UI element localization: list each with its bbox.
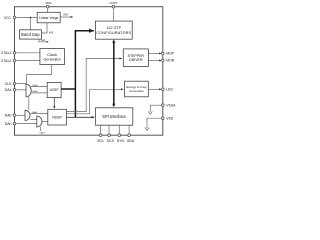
svg-text:Linear Vregs: Linear Vregs xyxy=(39,16,58,20)
spi SPI Interface xyxy=(96,108,133,125)
pin XTAL2 xyxy=(1,59,40,63)
pin XTAL1 xyxy=(1,51,40,55)
pin VDD xyxy=(45,1,52,12)
wire VCC branch to Band Gap xyxy=(30,18,32,30)
bus OTP-SPI vertical xyxy=(112,39,115,107)
wire VSS to ground xyxy=(147,118,162,128)
svg-text:LED: LED xyxy=(166,88,173,92)
pin VOTP xyxy=(109,1,117,21)
wire VDA output arrow xyxy=(60,14,73,17)
bus elbow to OTP xyxy=(75,30,94,32)
svg-text:MON: MON xyxy=(166,59,174,63)
wire DAn to second mux xyxy=(16,123,37,125)
pin VCC xyxy=(4,16,37,30)
mux upper input stage xyxy=(26,84,31,97)
mux lower input stage xyxy=(25,110,30,120)
wire NDSP to stepper driver xyxy=(67,59,122,112)
pin DAx xyxy=(5,88,26,92)
svg-text:XTAL1: XTAL1 xyxy=(1,51,11,55)
bus xDSP output xyxy=(61,88,75,90)
svg-text:DAx: DAx xyxy=(5,88,12,92)
wire NDSP and bus to SPI xyxy=(67,116,95,118)
wire mux chain vertical xyxy=(28,97,30,111)
svg-text:DAx2: DAx2 xyxy=(33,90,39,93)
svg-text:DAn: DAn xyxy=(5,122,12,126)
wire XTAL1 to Clock Generator xyxy=(16,52,40,54)
svg-text:SCS: SCS xyxy=(107,139,115,143)
driver STEPPER DRIVER xyxy=(123,49,148,67)
regulator U-LinearVregs xyxy=(37,12,60,22)
pin MON xyxy=(148,59,174,63)
wire clock net xyxy=(27,65,52,84)
wire lower mux to second mux xyxy=(31,118,37,120)
svg-text:bnd: bnd xyxy=(41,39,46,42)
svg-text:xDSP: xDSP xyxy=(50,88,59,92)
chip outer border xyxy=(15,7,163,136)
svg-text:XTAL2: XTAL2 xyxy=(1,59,11,63)
svg-text:VDA: VDA xyxy=(63,14,68,17)
oscillator Clock Generator xyxy=(40,49,65,65)
wire XTAL2 to Clock Generator xyxy=(16,60,40,62)
svg-text:NDSP: NDSP xyxy=(52,115,62,119)
svg-text:DAx1: DAx1 xyxy=(33,84,39,87)
svg-text:Converters: Converters xyxy=(129,89,144,93)
svg-text:SDA: SDA xyxy=(127,139,135,143)
wire VCC to Linear Vregs xyxy=(16,17,37,19)
bus thick vertical xyxy=(74,31,76,118)
wire DAb to lower mux xyxy=(16,114,25,116)
dsp NDSP xyxy=(48,109,67,125)
svg-text:VSSA: VSSA xyxy=(166,104,176,108)
svg-text:DAb1: DAb1 xyxy=(32,111,38,114)
pin VSS xyxy=(145,117,174,131)
wire mux to xDSP line2 xyxy=(31,90,47,93)
wire DAx to input mux xyxy=(16,89,26,91)
converter Energy to Freq xyxy=(125,81,149,97)
ground VSSA xyxy=(148,112,152,115)
pin VSSA xyxy=(148,104,176,115)
wire lower mux to NDSP line1 xyxy=(31,111,48,114)
svg-text:SPI Interface: SPI Interface xyxy=(102,114,126,119)
wire select stub xyxy=(40,127,42,131)
ground VSS xyxy=(145,128,149,131)
svg-text:VSS: VSS xyxy=(166,117,174,121)
svg-text:VCC: VCC xyxy=(4,16,12,20)
pin SYN xyxy=(117,125,125,143)
reference Band Gap xyxy=(20,30,42,39)
wire NDSP to Energy to Freq xyxy=(67,89,124,114)
wire CLK xyxy=(16,83,27,85)
pin MOP xyxy=(148,52,174,56)
pin CLK xyxy=(5,82,27,86)
wire VOTP to OTP box xyxy=(112,8,114,21)
svg-text:CONFIGURATORS: CONFIGURATORS xyxy=(96,31,131,35)
wire VDD to Linear Vregs xyxy=(47,8,49,12)
svg-text:DRIVER: DRIVER xyxy=(129,58,143,62)
wire bnd output arrow xyxy=(39,39,49,42)
svg-text:DAb: DAb xyxy=(5,114,12,118)
svg-text:Generator: Generator xyxy=(43,56,61,61)
svg-text:Band Gap: Band Gap xyxy=(21,32,40,37)
node VCC branch xyxy=(30,17,32,19)
pin SCL xyxy=(97,125,104,143)
svg-text:112 OTP: 112 OTP xyxy=(107,26,122,30)
svg-text:4V5: 4V5 xyxy=(49,32,54,35)
wire xDSP to NDSP xyxy=(53,98,55,109)
svg-text:CLK: CLK xyxy=(5,82,12,86)
svg-text:VOTP: VOTP xyxy=(109,1,117,5)
pin DAb xyxy=(5,114,25,118)
wire second mux to NDSP xyxy=(41,120,48,122)
otp 112 OTP CONFIGURATORS xyxy=(95,21,132,39)
svg-text:DAn1: DAn1 xyxy=(40,132,46,135)
pin SCS xyxy=(107,125,115,143)
svg-text:VDD: VDD xyxy=(45,1,52,5)
pin DAn xyxy=(5,122,37,126)
dsp xDSP xyxy=(47,82,61,97)
svg-text:SYN: SYN xyxy=(117,139,125,143)
mux second stage xyxy=(37,116,46,135)
wire Linear Vregs to Band Gap (4V5) xyxy=(41,23,54,35)
pin LED xyxy=(148,88,173,92)
wire VSSA to ground xyxy=(150,105,161,112)
svg-text:SCL: SCL xyxy=(97,139,104,143)
wire mux to xDSP line1 xyxy=(31,84,47,87)
svg-text:MOP: MOP xyxy=(166,52,174,56)
pin SDA xyxy=(127,125,135,143)
